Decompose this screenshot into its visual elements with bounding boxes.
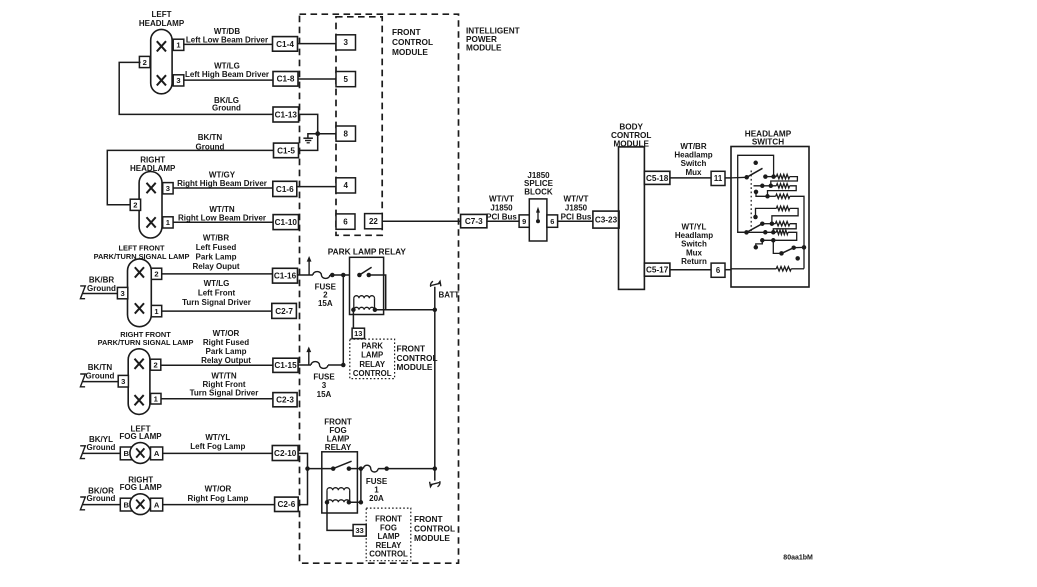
switch dashed selector line: [750, 171, 752, 234]
svg-text:Mux: Mux: [686, 168, 703, 177]
left park/turn pin 2: [151, 268, 161, 279]
wire C1-15 into IPM to fuse 3: [298, 364, 311, 366]
wire fuse 1 to BATT riser: [378, 468, 435, 470]
svg-text:2: 2: [143, 58, 147, 67]
connector C7-3: [461, 214, 487, 227]
svg-text:13: 13: [354, 329, 362, 338]
svg-text:HEADLAMP: HEADLAMP: [139, 19, 185, 28]
wire WT/GY right high beam driver: [173, 187, 272, 189]
connector C5-17: [644, 263, 670, 276]
svg-text:C1-4: C1-4: [276, 40, 294, 49]
lower switch arm: [744, 230, 749, 235]
svg-text:C1-10: C1-10: [275, 218, 298, 227]
wire BK/LG ground from left headlamp pin 2: [119, 62, 273, 114]
svg-text:Park Lamp: Park Lamp: [206, 347, 247, 356]
svg-text:Ground: Ground: [86, 371, 115, 380]
wire C1-16 into IPM to fuse 2: [298, 274, 313, 276]
wire C1-13 to ground junction: [299, 114, 318, 133]
svg-text:2: 2: [154, 270, 158, 279]
right headlamp pin 1: [163, 217, 173, 228]
FCM pin 22: [365, 214, 383, 229]
svg-text:LAMP: LAMP: [377, 532, 399, 541]
svg-text:WT/LG: WT/LG: [204, 279, 230, 288]
svg-text:WT/YL: WT/YL: [205, 433, 230, 442]
fog feed junction node: [305, 466, 310, 471]
wire WT/VT J1850 PCI bus left: [487, 220, 519, 222]
svg-text:PARK/TURN SIGNAL LAMP: PARK/TURN SIGNAL LAMP: [98, 338, 194, 347]
svg-text:Left Fog Lamp: Left Fog Lamp: [190, 442, 245, 451]
wire WT/BR left fused park lamp relay ouput: [162, 273, 273, 275]
svg-text:BLOCK: BLOCK: [524, 187, 553, 196]
left headlamp pin 1: [173, 39, 184, 50]
right fog lamp pin A: [151, 498, 163, 511]
svg-text:WT/OR: WT/OR: [205, 485, 232, 494]
svg-text:Ground: Ground: [87, 494, 116, 503]
svg-text:Left High Beam Driver: Left High Beam Driver: [185, 70, 269, 79]
svg-text:9: 9: [522, 217, 526, 226]
fuse 3: [311, 362, 328, 369]
fog relay output junction node: [359, 466, 364, 471]
BATT junction node: [433, 308, 438, 313]
park lamp relay coil: [354, 296, 375, 299]
resistor row 5: [760, 221, 765, 226]
front control module dashed border: [300, 14, 459, 563]
headlamp switch box: [731, 147, 809, 288]
resistor row 2: [760, 184, 765, 189]
resistor row 6: [763, 230, 768, 235]
wire WT/YL headlamp switch mux return: [670, 269, 711, 271]
fuse 3 feed arrow: [308, 350, 310, 365]
svg-text:LAMP: LAMP: [361, 351, 383, 360]
right park/turn lamp outline: [128, 349, 150, 415]
wire BK/TN ground to right headlamp pin 2: [107, 150, 273, 204]
svg-text:C1-6: C1-6: [276, 185, 294, 194]
FCM pin 6: [336, 214, 355, 229]
svg-text:C1-15: C1-15: [274, 361, 297, 370]
svg-text:FOG LAMP: FOG LAMP: [119, 432, 162, 441]
connector C1-10: [273, 215, 298, 230]
wire coil to FCM pin 13: [352, 310, 354, 328]
ground junction node: [315, 131, 320, 136]
BATT feed symbol: [431, 281, 441, 287]
svg-text:Turn Signal Driver: Turn Signal Driver: [190, 389, 259, 398]
svg-text:BATT: BATT: [439, 290, 460, 299]
wire WT/OR right fused park lamp relay output: [161, 364, 273, 366]
svg-text:MODULE: MODULE: [466, 44, 502, 53]
row 6 return nodes: [771, 238, 776, 243]
FCM pin 13: [352, 328, 364, 338]
svg-text:33: 33: [356, 526, 364, 535]
svg-text:B: B: [124, 449, 130, 458]
junction node fuse 3: [341, 363, 346, 368]
wire junction to FCM pin 8: [318, 133, 336, 135]
svg-text:Left Low Beam Driver: Left Low Beam Driver: [186, 36, 268, 45]
right fog lamp bulb circle: [130, 494, 151, 515]
left park/turn pin 3: [117, 287, 127, 298]
svg-text:C2-6: C2-6: [278, 500, 296, 509]
svg-text:3: 3: [344, 38, 349, 47]
wire park relay coil to BATT feed: [375, 309, 435, 311]
fog BATT junction node: [433, 466, 438, 471]
selector tap node: [754, 190, 759, 195]
connector C2-6: [275, 497, 299, 511]
resistor row 3: [765, 194, 770, 199]
svg-text:WT/BR: WT/BR: [203, 233, 229, 242]
svg-text:4: 4: [344, 181, 349, 190]
switch internal frame: [738, 155, 774, 232]
left park/turn ground symbol BK/BR: [80, 286, 85, 299]
splice block pin 9: [519, 215, 529, 227]
front fog lamp relay control dotted box: [366, 508, 411, 561]
wire pin 6 into switch resistor row: [725, 269, 731, 271]
resistor row 4: [753, 215, 758, 220]
fuse 2: [313, 272, 330, 279]
svg-text:C5-18: C5-18: [646, 174, 669, 183]
svg-text:PARK LAMP RELAY: PARK LAMP RELAY: [328, 246, 407, 256]
svg-text:6: 6: [343, 217, 348, 226]
svg-text:MODULE: MODULE: [392, 47, 428, 57]
svg-text:Left Front: Left Front: [198, 289, 236, 298]
svg-text:A: A: [154, 449, 160, 458]
svg-text:Ground: Ground: [196, 142, 225, 151]
left park lamp bulb X: [135, 267, 144, 277]
junction node after fuse 2: [330, 273, 335, 278]
svg-text:5: 5: [344, 75, 349, 84]
wire WT/LG left front turn signal driver: [162, 310, 272, 312]
svg-text:WT/VT: WT/VT: [564, 195, 589, 204]
left fog lamp bulb circle: [130, 443, 151, 464]
svg-text:C5-17: C5-17: [646, 266, 669, 275]
wire WT/OR right fog lamp: [163, 504, 275, 506]
svg-text:WT/OR: WT/OR: [213, 329, 240, 338]
svg-text:WT/TN: WT/TN: [211, 371, 237, 380]
connector C1-15: [273, 358, 298, 372]
lower right selector switch: [773, 240, 781, 253]
front control module inner dashed connector box: [336, 17, 382, 236]
wire WT/DB left low beam driver: [184, 43, 273, 45]
right headlamp low beam bulb X: [147, 217, 156, 227]
svg-text:PARK: PARK: [361, 341, 383, 350]
ground symbol inside IPM: [308, 134, 318, 138]
left park/turn lamp outline: [128, 259, 152, 327]
svg-text:FRONT: FRONT: [414, 514, 443, 524]
svg-text:C1-16: C1-16: [274, 272, 297, 281]
svg-text:MODULE: MODULE: [397, 362, 433, 372]
left turn signal bulb X: [135, 303, 144, 313]
fog relay switch output wire: [349, 468, 361, 470]
fog relay switch contacts: [331, 466, 336, 471]
connector C2-10: [272, 446, 298, 461]
wire WT/TN right front turn signal driver: [161, 398, 273, 400]
svg-text:RELAY: RELAY: [325, 443, 352, 452]
svg-text:3: 3: [121, 377, 125, 386]
wire C1-6 to FCM pin 4: [297, 186, 336, 188]
right headlamp pin 3: [163, 183, 173, 194]
park lamp relay box: [350, 257, 384, 314]
svg-text:C1-8: C1-8: [277, 75, 295, 84]
connector C2-3: [273, 393, 297, 407]
connector C3-23: [593, 211, 619, 228]
splice internal arrow: [536, 219, 540, 223]
fuse 1: [363, 465, 378, 472]
svg-text:J1850: J1850: [565, 204, 588, 213]
svg-text:CONTROL: CONTROL: [392, 37, 433, 47]
FCM pin 33: [353, 525, 366, 537]
left fog lamp pin A: [151, 447, 163, 460]
svg-text:FRONT: FRONT: [375, 515, 402, 524]
left headlamp pin 2: [139, 56, 150, 67]
left fog lamp ground symbol BK/YL: [80, 446, 85, 459]
svg-text:Right High Beam Driver: Right High Beam Driver: [177, 179, 267, 188]
svg-text:LEFT: LEFT: [152, 10, 172, 19]
svg-text:CONTROL: CONTROL: [369, 550, 408, 559]
svg-text:C1-5: C1-5: [277, 146, 295, 155]
right park lamp bulb X: [135, 359, 144, 369]
svg-text:Ground: Ground: [87, 284, 116, 293]
wire WT/YL left fog lamp: [163, 452, 273, 454]
fog BATT feed symbol: [430, 481, 440, 487]
svg-text:BK/BR: BK/BR: [89, 275, 115, 284]
resistor row 7 bottom: [731, 268, 776, 270]
svg-text:CONTROL: CONTROL: [414, 524, 455, 534]
svg-text:Right Low Beam Driver: Right Low Beam Driver: [178, 213, 266, 222]
right park/turn pin 1: [151, 393, 161, 404]
wire pin 11 into switch: [725, 177, 731, 179]
J1850 splice block: [529, 199, 547, 241]
svg-text:Right Fog Lamp: Right Fog Lamp: [188, 494, 249, 503]
svg-text:C1-13: C1-13: [275, 110, 298, 119]
riser wire fuse 2 to fuse 3: [342, 275, 344, 365]
FCM pin 8: [336, 126, 356, 141]
svg-text:WT/VT: WT/VT: [489, 195, 514, 204]
svg-text:B: B: [124, 500, 130, 509]
left headlamp high beam bulb X: [157, 75, 166, 85]
junction node fuse2/fuse3 riser: [341, 273, 346, 278]
wire WT/LG left high beam driver: [184, 79, 273, 81]
svg-text:Right Fused: Right Fused: [203, 338, 249, 347]
svg-text:BK/TN: BK/TN: [198, 133, 223, 142]
left headlamp bulb outline: [151, 29, 172, 93]
connector C1-6: [273, 181, 297, 196]
svg-text:SWITCH: SWITCH: [752, 138, 784, 147]
svg-text:Park Lamp: Park Lamp: [196, 253, 237, 262]
svg-text:WT/LG: WT/LG: [214, 61, 240, 70]
svg-text:2: 2: [133, 201, 137, 210]
svg-text:PCI Bus: PCI Bus: [561, 213, 592, 222]
right park/turn pin 3: [118, 375, 128, 387]
wire fuse 3 to riser junction: [328, 364, 343, 366]
svg-text:22: 22: [369, 217, 378, 226]
svg-text:A: A: [154, 500, 160, 509]
svg-text:MODULE: MODULE: [414, 533, 450, 543]
svg-text:6: 6: [550, 217, 554, 226]
svg-text:C3-23: C3-23: [595, 216, 618, 225]
svg-text:3: 3: [176, 76, 180, 85]
svg-text:RELAY: RELAY: [376, 541, 403, 550]
right fog lamp pin B: [120, 498, 132, 511]
right park/turn ground symbol BK/TN: [80, 374, 85, 387]
body control module box: [619, 147, 645, 290]
svg-text:80aa1bM: 80aa1bM: [783, 555, 813, 562]
svg-text:Right Front: Right Front: [202, 380, 245, 389]
wire FCM pin 22 to C7-3 PCI bus: [382, 220, 460, 222]
wire C1-4 to FCM pin 3: [298, 43, 337, 45]
svg-text:20A: 20A: [369, 494, 384, 503]
svg-text:8: 8: [344, 129, 349, 138]
connector C1-4: [273, 37, 298, 52]
wire fuse 2 to park lamp relay: [330, 274, 350, 276]
park lamp relay switch contacts: [357, 273, 362, 278]
headlamp switch pin 6: [711, 263, 725, 277]
connector C1-13: [273, 107, 299, 122]
svg-text:CONTROL: CONTROL: [353, 369, 392, 378]
wire C1-8 to FCM pin 5: [298, 78, 336, 80]
svg-text:C2-3: C2-3: [276, 396, 294, 405]
svg-text:11: 11: [714, 174, 723, 183]
left park/turn pin 1: [151, 305, 161, 316]
connector C2-7: [272, 303, 297, 318]
headlamp switch pin 11: [711, 171, 725, 185]
left headlamp pin 3: [173, 75, 184, 86]
right park/turn pin 2: [150, 359, 160, 370]
svg-text:Turn Signal Driver: Turn Signal Driver: [182, 298, 251, 307]
connector C1-5: [274, 143, 299, 158]
svg-text:C7-3: C7-3: [465, 217, 483, 226]
svg-text:2: 2: [153, 361, 157, 370]
right headlamp high beam bulb X: [147, 183, 156, 193]
splice block pin 6: [547, 215, 558, 227]
svg-text:C2-10: C2-10: [274, 449, 297, 458]
FCM pin 4: [336, 178, 356, 193]
front fog lamp relay box: [322, 452, 358, 513]
svg-text:Ground: Ground: [212, 103, 241, 112]
svg-text:3: 3: [120, 289, 124, 298]
svg-text:FRONT: FRONT: [392, 27, 421, 37]
fog relay coil: [327, 488, 350, 491]
svg-text:15A: 15A: [317, 390, 332, 399]
connector C1-16: [273, 268, 298, 283]
svg-text:Relay Output: Relay Output: [201, 356, 251, 365]
svg-text:15A: 15A: [318, 299, 333, 308]
BATT wire down to fog fuse: [434, 287, 436, 469]
left headlamp low beam bulb X: [157, 41, 166, 51]
svg-text:J1850: J1850: [490, 204, 513, 213]
svg-text:PCI Bus: PCI Bus: [486, 213, 517, 222]
svg-text:6: 6: [716, 266, 721, 275]
right headlamp pin 2: [130, 199, 140, 210]
svg-text:FOG: FOG: [380, 523, 397, 532]
wire WT/BR headlamp switch mux: [670, 177, 711, 179]
left fog lamp pin B: [120, 447, 132, 460]
svg-text:3: 3: [166, 184, 170, 193]
wire junction to fog relay: [308, 468, 334, 470]
park lamp relay switch output wire: [369, 275, 386, 310]
svg-text:Ground: Ground: [87, 443, 116, 452]
svg-text:Relay Ouput: Relay Ouput: [192, 262, 239, 271]
right headlamp bulb outline: [139, 172, 162, 239]
open contact node: [795, 256, 800, 261]
right turn signal bulb X: [135, 395, 144, 405]
wire WT/VT J1850 PCI bus right: [558, 220, 593, 222]
upper switch arm: [744, 175, 749, 180]
park lamp relay control dotted box: [350, 339, 395, 379]
fuse 2 feed arrow: [308, 260, 310, 276]
wire coil to relay output riser: [349, 469, 361, 503]
right fog lamp ground symbol BK/OR: [80, 497, 85, 510]
wire ground junction down to C1-5: [298, 134, 318, 151]
wire C2-10/C2-6 junction riser: [298, 453, 307, 504]
connector C5-18: [644, 171, 670, 184]
svg-text:Left Fused: Left Fused: [196, 243, 237, 252]
resistor row 1: [763, 174, 768, 179]
svg-text:RELAY: RELAY: [359, 360, 386, 369]
connector C1-8: [273, 72, 298, 87]
svg-text:FOG LAMP: FOG LAMP: [120, 483, 163, 492]
svg-text:C2-7: C2-7: [275, 307, 293, 316]
wire fog coil to FCM pin 33: [327, 502, 353, 530]
svg-text:Return: Return: [681, 257, 707, 266]
FCM pin 3: [336, 35, 356, 50]
wire WT/TN right low beam driver: [173, 221, 273, 223]
FCM pin 5: [336, 72, 356, 87]
